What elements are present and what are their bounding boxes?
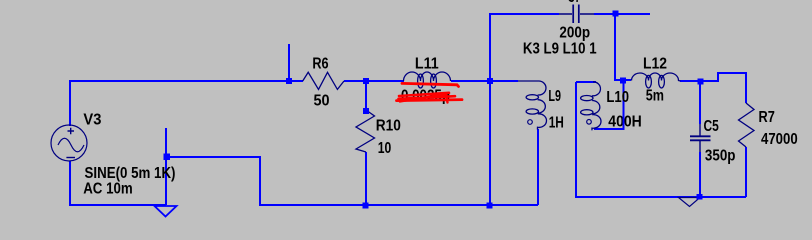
svg-text:AC 10m: AC 10m — [83, 181, 133, 198]
svg-text:R7: R7 — [759, 109, 775, 126]
svg-text:R10: R10 — [376, 117, 401, 134]
svg-text:47000: 47000 — [761, 131, 798, 148]
svg-text:10: 10 — [378, 140, 392, 157]
svg-text:L12: L12 — [643, 55, 667, 72]
svg-text:L9: L9 — [548, 88, 561, 105]
svg-text:R6: R6 — [312, 56, 328, 73]
svg-text:C5: C5 — [704, 118, 719, 135]
svg-text:C7: C7 — [568, 0, 581, 6]
svg-text:L10: L10 — [606, 89, 629, 106]
svg-text:SINE(0 5m 1K): SINE(0 5m 1K) — [85, 165, 176, 182]
svg-text:K3 L9 L10 1: K3 L9 L10 1 — [523, 40, 597, 57]
svg-text:350p: 350p — [705, 147, 736, 164]
svg-text:L11: L11 — [415, 56, 439, 73]
svg-text:200p: 200p — [559, 24, 590, 41]
svg-text:V3: V3 — [83, 112, 101, 129]
svg-text:1H: 1H — [549, 114, 564, 131]
svg-text:50: 50 — [314, 93, 330, 110]
svg-text:400H: 400H — [608, 114, 642, 131]
svg-text:5m: 5m — [646, 88, 664, 105]
